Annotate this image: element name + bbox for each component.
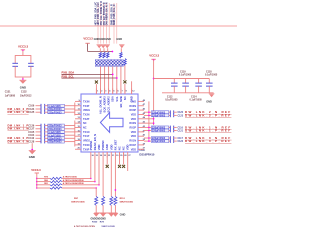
label C114 0.1uF/1005 (190, 95, 203, 101)
svg-text:C116: C116 (178, 127, 184, 129)
svg-text:GND: GND (105, 144, 109, 150)
wire drop to left-bank ground (31, 143, 33, 150)
svg-text:C121: C121 (178, 130, 184, 132)
ground symbol left bank (29, 150, 36, 159)
pin 9 TX3N (left) (75, 100, 90, 104)
capacitor 0.1uF at x=198.6 (195, 79, 202, 93)
ground symbol bottom x=103.1 (100, 213, 105, 217)
svg-text:DM_LNK_1_N: DM_LNK_1_N (8, 127, 29, 131)
pin 41 VDD (right) (131, 129, 146, 134)
svg-text:R100: R100 (92, 222, 98, 224)
value label 220pF/0603 for C117 (151, 137, 168, 141)
svg-text:TX2N: TX2N (83, 113, 90, 116)
capacitor C127 220pF/0603 (28, 127, 47, 131)
svg-text:VCC3.3: VCC3.3 (149, 53, 159, 57)
capacitor C121 (169, 129, 177, 133)
svg-text:SMB_PXB_SCL_R: SMB_PXB_SCL_R (113, 4, 116, 25)
power flag VCC3.3 (right) (149, 53, 159, 60)
pin 6 SCL (top) (115, 89, 120, 102)
resistor at x=120.9 (120, 48, 122, 58)
wire pin30 down (115, 158, 117, 197)
net HDT_PXB_SDA_LVC (vertical wire to top) (94, 2, 98, 44)
svg-text:GND: GND (130, 96, 134, 102)
pin 8 NC (top) (123, 89, 128, 101)
ground symbol at x=103.2 (101, 44, 106, 48)
svg-text:59K/1%/1005: 59K/1%/1005 (71, 202, 85, 204)
wire cap row y=131.9 to bus (64, 131, 74, 133)
value label 220pF/0603 (48, 111, 65, 115)
wire RN to chip top pin x=100.5 (100, 66, 102, 94)
pin 35 READ_EN_N (bottom) (93, 134, 99, 158)
wire chip top pin x=124.9 with no-connect (123, 66, 126, 94)
wire cap row y=128.8 to bus (64, 128, 74, 130)
svg-text:PWDN0: PWDN0 (101, 140, 105, 150)
wire VCC3.3 stem to cap box (22, 50, 24, 55)
pin 12 GND (top) (130, 89, 136, 103)
wire bottom rail of C131/C132 box (15, 76, 31, 78)
svg-text:NC: NC (83, 127, 87, 130)
capacitor C123 (169, 114, 177, 118)
pin 34 VDD (bottom) (97, 144, 103, 157)
ground symbol bottom x=115.4 (113, 213, 118, 217)
wire top rail of C131/C132 box (15, 55, 31, 57)
resistor (pull) at x=107.7 (107, 48, 109, 58)
value label 0.1uF/1005 (48, 104, 65, 108)
svg-text:C122: C122 (178, 141, 184, 143)
svg-text:NC: NC (122, 146, 126, 150)
svg-text:GND: GND (120, 213, 126, 217)
svg-text:RX1P: RX1P (129, 144, 136, 147)
svg-text:RX_DET: RX_DET (113, 139, 117, 150)
value label 220pF/0603 (48, 137, 65, 141)
svg-text:10uF/2012: 10uF/2012 (20, 94, 32, 97)
svg-text:TX3P: TX3P (83, 105, 90, 108)
pin 30 RX_DET (bottom) (113, 139, 119, 157)
net DW_LNK_2_N_REF (178, 110, 232, 114)
net DW_LNK_0_N_REF (178, 136, 232, 140)
capacitor C128 220pF/0603 (28, 140, 47, 144)
wire pin35 to row2 (94, 158, 96, 182)
wire ground rail bottom (94, 212, 117, 214)
wire left bus group1 (74, 103, 76, 116)
wire cap row y=112.2 to bus (64, 111, 74, 113)
block arrow inside U8 (points left) (100, 113, 123, 133)
net DW_LNK_1_P_REF (178, 128, 232, 132)
pin 5 SDA (top) (111, 89, 116, 102)
svg-text:DS16PR410: DS16PR410 (139, 153, 154, 157)
pin 44 VDD (right) (131, 116, 146, 121)
wire pin27 stub (127, 158, 129, 172)
value label 220pF/0603 (48, 140, 65, 144)
power flag VCC3.3 (bottom-left) (31, 168, 41, 174)
svg-text:EQ0_ADDR3: EQ0_ADDR3 (103, 96, 107, 113)
pin 47 RX3N (right) (129, 103, 145, 108)
pin 32 GND (bottom) (105, 144, 111, 157)
svg-text:C128: C128 (28, 141, 35, 144)
net PXB_SCL (62, 74, 118, 79)
label C132 value 10uF/2012 (20, 91, 32, 98)
svg-text:GNDGNDGND: GNDGNDGND (94, 37, 111, 41)
wire RN to chip top pin x=120.9 (120, 66, 122, 94)
value label 220pF/0603 for C116 (151, 126, 168, 130)
value label 220pF/0603 for C122 (151, 140, 168, 144)
svg-text:READ_EN_N: READ_EN_N (93, 134, 97, 150)
wire cap row y=135.2 to bus (64, 134, 74, 136)
wire cap row y=105.7 to bus (64, 105, 74, 107)
svg-text:DM_LNK_0_N: DM_LNK_0_N (8, 140, 29, 144)
svg-text:220pF/0603: 220pF/0603 (152, 140, 166, 143)
svg-text:0.1uF/1005: 0.1uF/1005 (205, 74, 218, 77)
svg-text:NC: NC (123, 96, 127, 100)
svg-text:NC: NC (83, 122, 87, 125)
pin 17 TX1P (left) (75, 135, 90, 139)
svg-text:EN_SMB: EN_SMB (119, 96, 123, 107)
svg-text:RX2P: RX2P (129, 127, 136, 130)
pin 3 EQ0_ADDR3 (top) (103, 89, 108, 113)
pin 20 TX0P (left) (75, 148, 90, 152)
pin 37 VDD (right) (131, 148, 146, 152)
svg-text:DW_READ_EN_N_R: DW_READ_EN_N_R (106, 2, 109, 25)
label C119 0.1uF/1005 (179, 70, 192, 76)
pin 33 PWDN0 (bottom) (101, 140, 107, 158)
resistor (pull) at x=100.3 (99, 48, 101, 58)
svg-text:DW_LNK_1_P_REF: DW_LNK_1_P_REF (185, 128, 231, 132)
svg-text:C131: C131 (5, 91, 11, 94)
svg-text:VDD: VDD (131, 113, 136, 116)
wire right bus (148, 101, 150, 141)
capacitor 0.1uF at x=174.3 (171, 79, 178, 93)
pin 27 VDD (bottom) (126, 144, 132, 157)
net HDT_PXB_SCL_LVC (vertical wire to top) (97, 2, 101, 44)
resistor at x=125.1 (124, 59, 126, 66)
svg-text:GND: GND (116, 37, 122, 41)
svg-text:C123: C123 (178, 115, 184, 117)
pin 39 RX1N (right) (129, 139, 145, 143)
ground symbol at x=99.2 (97, 44, 102, 48)
wire row y=141.1 from bus (144, 140, 151, 142)
svg-text:RX1N: RX1N (129, 140, 136, 143)
svg-text:PWDN1: PWDN1 (89, 140, 93, 150)
svg-text:0.1uF/1005: 0.1uF/1005 (165, 99, 178, 102)
svg-text:0.1uF/1005: 0.1uF/1005 (179, 74, 192, 77)
wire VDD pin 45 to VCC vertical (144, 118, 154, 120)
svg-text:DW_LNK_2_P_REF: DW_LNK_2_P_REF (185, 113, 231, 117)
svg-text:VDD: VDD (131, 148, 136, 151)
capacitor C106 0.1uF/1005 (28, 104, 47, 108)
svg-text:SDA: SDA (111, 96, 115, 102)
no-connect pin28 (122, 152, 125, 168)
capacitor C105 0.1uF/1005 (28, 130, 47, 134)
resistor pull-up row y=188.0 (36, 187, 97, 189)
svg-text:RX3N: RX3N (129, 105, 136, 108)
svg-text:C132: C132 (21, 91, 27, 94)
net DW_EQ_BYPASS_R (vertical wire to top) (103, 2, 107, 43)
pin 7 EN_SMB (top) (119, 89, 124, 108)
pin 45 VDD (right) (131, 112, 146, 117)
svg-text:RX2N: RX2N (129, 122, 136, 125)
capacitor C122 (169, 139, 177, 143)
wire VCC3.3 stem down (87, 44, 89, 52)
pin 18 VREG (left) (75, 139, 90, 143)
net DW_ALL_DONE_N_R (vertical wire to top) (100, 1, 104, 44)
svg-text:GNDGNDGND: GNDGNDGND (91, 219, 107, 221)
wire row y=112.2 from bus (144, 111, 151, 113)
pin 12 TX2N (left) (75, 113, 90, 117)
pin 28 NC (bottom) (122, 146, 128, 157)
svg-text:R112: R112 (120, 198, 126, 200)
wire chip pin 1 stub with no-connect (95, 81, 98, 95)
wire cap row y=138.3 to bus (64, 137, 74, 139)
svg-text:VCC3.3: VCC3.3 (83, 36, 93, 40)
capacitor C125 220pF/0603 (28, 110, 47, 114)
wire bottom rail (GND) of cap group (162, 92, 214, 94)
svg-text:VCC3.3: VCC3.3 (18, 45, 29, 49)
sheet border line (0, 25, 237, 27)
capacitor C132 (28, 55, 34, 77)
power flag VCC3.3 (top-left) (18, 45, 29, 52)
value label 220pF/0603 for C121 (151, 129, 168, 133)
value label 220pF/0603 (48, 108, 65, 112)
svg-text:TX1N: TX1N (83, 131, 90, 134)
wire VDD pin 44 to VCC vertical (144, 122, 154, 124)
capacitor C116 (169, 126, 177, 130)
svg-text:C125: C125 (28, 111, 35, 114)
svg-text:TX3N: TX3N (83, 100, 90, 103)
net DW_LNK_1_N_REF (178, 125, 232, 129)
ground symbol at x=121.8 (119, 44, 124, 48)
power flag VCC3.3 (above chip) (83, 36, 93, 43)
svg-text:GND: GND (20, 85, 26, 89)
svg-text:EQ1_ADDR2: EQ1_ADDR2 (107, 96, 111, 113)
svg-text:TX2P: TX2P (83, 118, 90, 121)
value label 220pF/0603 for C123 (151, 114, 168, 118)
net SMB_PXB_SCL_R (vertical wire to top) (113, 3, 117, 44)
pin 13 TX2P (left) (75, 117, 90, 121)
svg-text:DM_LNK_2_N: DM_LNK_2_N (8, 110, 29, 114)
svg-text:SCL: SCL (115, 96, 119, 102)
svg-text:220pF/0603: 220pF/0603 (152, 114, 166, 117)
svg-text:220pF/0603: 220pF/0603 (48, 141, 62, 144)
wire stem to ground (22, 77, 24, 80)
resistor R97 59K/1%/1005 (71, 196, 97, 213)
pin 14 NC (left) (75, 121, 87, 126)
resistor R78 (110, 196, 113, 213)
svg-text:4.7K/1%/1005/OPEN: 4.7K/1%/1005/OPEN (63, 182, 84, 185)
value label 220pF/0603 (48, 127, 65, 131)
pin 38 RX1P (right) (129, 143, 145, 147)
capacitor 0.1uF at x=185.6 (182, 79, 189, 93)
label C131 value 1uF/1608 (5, 91, 16, 98)
resistor network RN (crosshatch block) (95, 60, 123, 67)
capacitor C126 220pF/0603 (28, 124, 47, 128)
svg-text:C117: C117 (178, 138, 184, 140)
pin 15 NC (left) (75, 126, 87, 130)
svg-text:VDD: VDD (126, 144, 130, 150)
svg-text:VDD: VDD (131, 118, 136, 121)
ground symbol at x=107.2 (105, 44, 110, 48)
svg-text:59K/1%/1005: 59K/1%/1005 (120, 202, 134, 204)
value label 220pF/0603 (48, 124, 65, 128)
capacitor C120 (169, 110, 177, 114)
wire RN to chip top pin x=116.8 (116, 66, 118, 94)
pin 36 PWDN1 (bottom) (89, 140, 95, 158)
pin 29 NC (bottom) (118, 146, 124, 157)
svg-text:220pF/0603: 220pF/0603 (152, 130, 166, 133)
resistor (pull) at x=104.0 (103, 48, 105, 58)
svg-text:VDD: VDD (97, 144, 101, 150)
wire left bus group2 (74, 121, 76, 147)
op-amp U8 DS16PR410 body (81, 94, 138, 152)
pin 19 TX0N (left) (75, 143, 90, 147)
pin 40 VDD (right) (131, 134, 146, 139)
wire top rail of C112/C114/C118/C119 (154, 78, 210, 80)
svg-text:DW_LNK_0_P_REF: DW_LNK_0_P_REF (185, 139, 231, 143)
capacitor C117 (169, 136, 177, 140)
pin 42 RX2P (right) (129, 125, 145, 130)
pin 11 VREG (left) (75, 109, 90, 113)
net DW_LNK_0_P_REF (178, 139, 232, 143)
wire pin36 to row1 (90, 158, 92, 179)
wire row y=130.5 from bus (144, 130, 151, 132)
resistor pull-up row y=178.4 R79 (36, 176, 92, 180)
value label 220pF/0603 for C120 (151, 111, 168, 115)
value label 0.1uF/1005 (48, 134, 65, 138)
ground symbol right cap group (206, 93, 214, 103)
resistor pull-up row y=181.6 R80 (36, 179, 96, 183)
wire row y=127.4 from bus (144, 127, 151, 129)
wire RN to chip top pin x=104.6 (104, 66, 106, 94)
svg-text:TX1P: TX1P (83, 135, 90, 138)
svg-text:0.1uF/1005: 0.1uF/1005 (190, 99, 203, 102)
net DW_READ_EN_N_R (vertical wire to top) (106, 2, 110, 43)
label C118 0.1uF/1005 (205, 70, 218, 76)
pin 10 TX3P (left) (75, 104, 90, 108)
svg-text:1uF/1608: 1uF/1608 (5, 94, 16, 97)
svg-text:C120: C120 (178, 112, 184, 114)
wire row y=138.0 from bus (144, 137, 151, 139)
pin 46 RX3P (right) (129, 108, 145, 113)
capacitor C104 0.1uF/1005 (28, 133, 47, 137)
resistor R112 59K/1%/1005 (114, 196, 134, 213)
wire row4 to R97 (95, 188, 97, 196)
svg-text:ALL_DONE_N: ALL_DONE_N (99, 96, 103, 114)
svg-text:RX3P: RX3P (129, 109, 136, 112)
ground symbol below C131/C132 (19, 80, 26, 90)
wire RN to chip top pin x=112.7 (112, 66, 114, 94)
svg-text:TX0P: TX0P (83, 148, 90, 151)
pin 31 VDD (bottom) (109, 144, 115, 157)
wire chip top pin x=131.6 stub (131, 81, 133, 94)
svg-text:4.7K/1%/1005/OPEN: 4.7K/1%/1005/OPEN (63, 179, 84, 182)
svg-text:VDD: VDD (131, 135, 136, 138)
capacitor C110 220pF/0603 (28, 137, 47, 141)
svg-text:GND: GND (29, 155, 35, 159)
net PXB_SDA (62, 71, 114, 76)
wire row y=115.4 from bus (144, 115, 151, 117)
capacitor C131 (12, 55, 18, 77)
no-connect pin29 (118, 152, 121, 168)
wire pin34 to row3 (98, 158, 100, 185)
ground symbol bottom x=96.2 (94, 213, 99, 217)
pin 16 TX1N (left) (75, 130, 90, 134)
resistor R100 (102, 196, 105, 213)
wire VCC3.3 vertical (right) (153, 60, 155, 125)
net SMB_PXB_SDA_R (vertical wire to top) (110, 3, 114, 44)
wire pin33 down (102, 158, 104, 197)
value label 0.1uF/1005 (48, 130, 65, 134)
svg-text:59K/1%/1005: 59K/1%/1005 (102, 226, 116, 228)
capacitor 0.1uF at x=209.3 (206, 79, 213, 93)
resistor pull-up row y=184.8 R81 (36, 182, 100, 186)
wire RN to chip top pin x=108.6 (108, 66, 110, 94)
svg-text:TX0N: TX0N (83, 144, 90, 147)
pin 1 (top) (96, 89, 99, 95)
svg-text:VDD: VDD (109, 144, 113, 150)
svg-text:GND: GND (206, 101, 212, 104)
svg-text:VREG: VREG (83, 109, 90, 112)
pin 4 EQ1_ADDR2 (top) (107, 89, 112, 113)
wire cap row y=141.6 to bus (64, 141, 74, 143)
no-connect pin32 (106, 152, 109, 168)
pin 48 GND (right) (130, 99, 145, 104)
wire VCC rail to pull-up (88, 51, 114, 53)
label C112 0.1uF/1005 (165, 95, 178, 101)
net DW_LNK_2_P_REF (178, 113, 232, 117)
svg-text:4.7K/1%/1005: 4.7K/1%/1005 (63, 176, 78, 179)
capacitor C124 220pF/0603 (28, 107, 47, 111)
wire pin31 down (110, 158, 112, 197)
svg-text:VDD: VDD (131, 131, 136, 134)
wire cap row y=125.5 to bus (64, 125, 74, 127)
svg-text:220pF/0603: 220pF/0603 (48, 111, 62, 114)
svg-text:NC: NC (118, 146, 122, 150)
pin 43 RX2N (right) (129, 121, 145, 126)
wire cap row y=109.0 to bus (64, 108, 74, 110)
ground symbol bottom x=111.3 (109, 213, 114, 217)
svg-text:VCC3.3: VCC3.3 (31, 168, 41, 172)
svg-text:4.7K/1%/1005-OPEN: 4.7K/1%/1005-OPEN (74, 225, 95, 228)
wire VCC stem bottom-left (36, 173, 38, 188)
pin 2 ALL_DONE_N (top) (99, 89, 104, 115)
